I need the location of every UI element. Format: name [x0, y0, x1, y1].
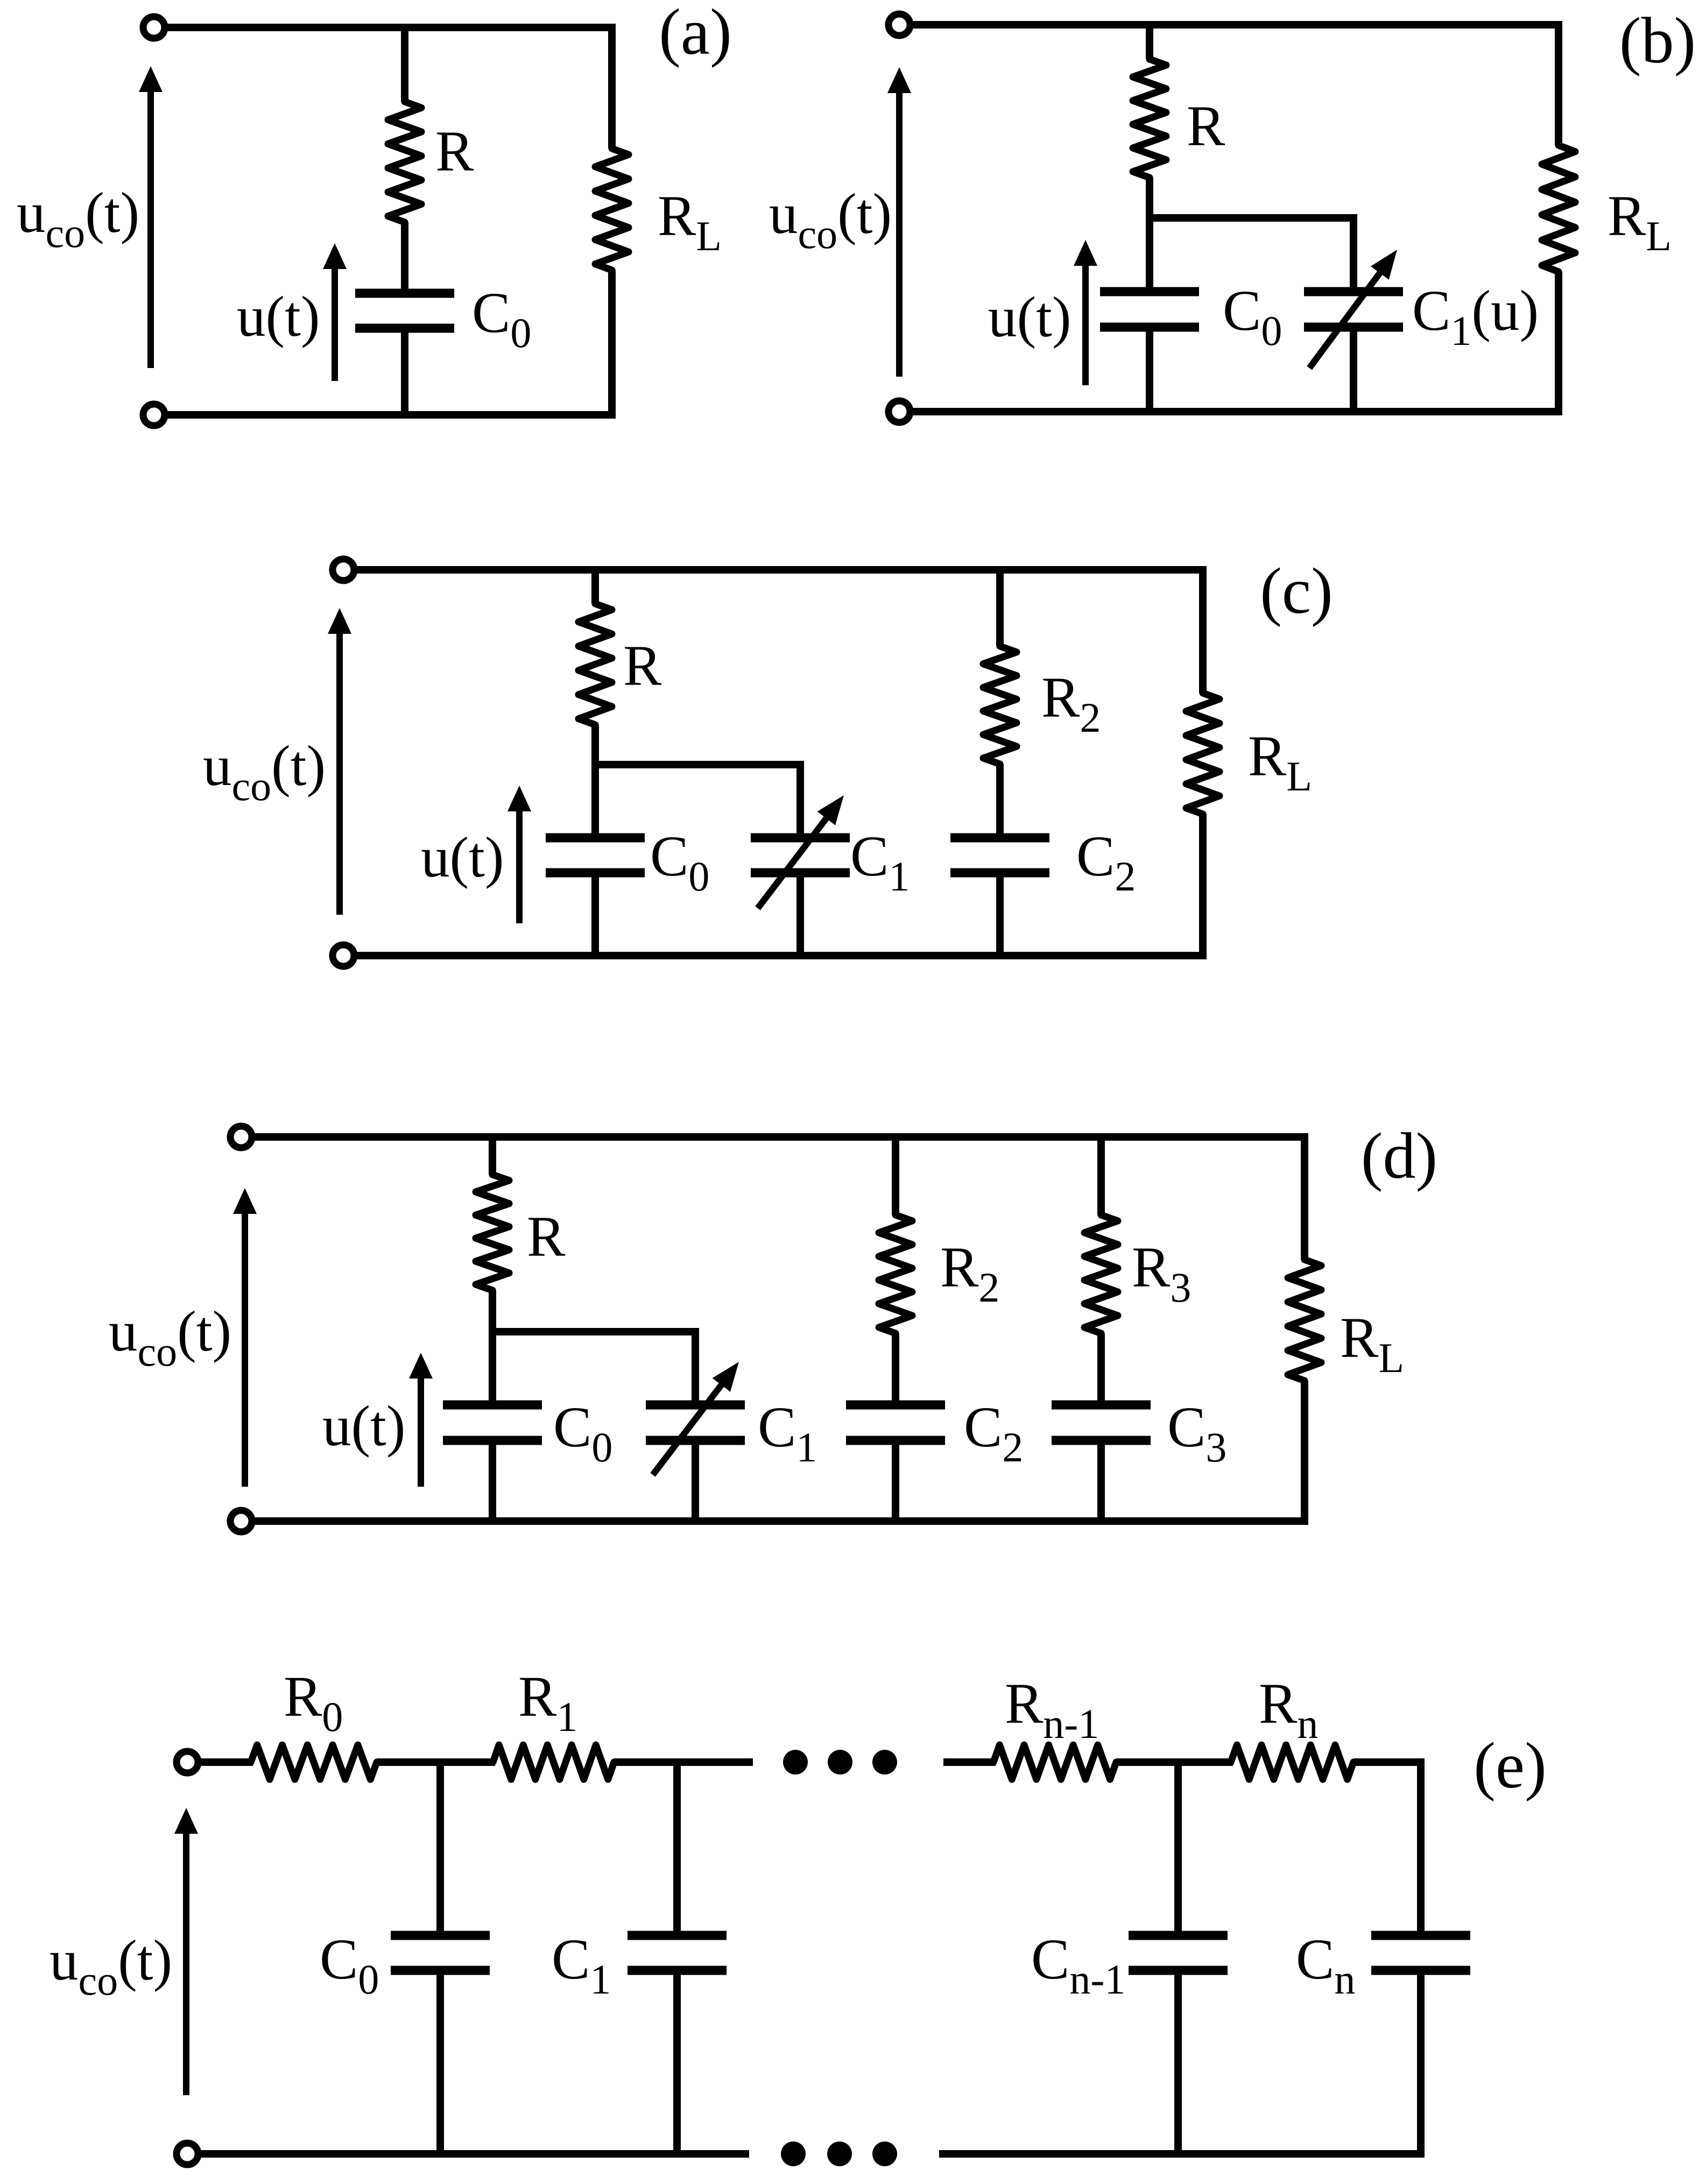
svg-text:(b): (b) [1619, 4, 1696, 77]
arrow u_co(t) e [183, 1830, 189, 2095]
resistor R (d) [476, 1175, 509, 1290]
capacitor C0 (a) [355, 289, 454, 298]
wire e C0 top lead [436, 1762, 444, 1935]
svg-text:u(t): u(t) [322, 1395, 406, 1458]
resistor R (c) [579, 604, 612, 725]
wire a R-C0 lead [401, 222, 408, 293]
wire b RL bottom lead [1555, 272, 1562, 415]
wire d R2-C2 lead [892, 1333, 899, 1405]
capacitor C3 (d) [1052, 1401, 1151, 1410]
wire e top Rn-1-Rn [1116, 1758, 1233, 1766]
arrow u(t) d [418, 1375, 424, 1487]
capacitor C0 (d) [443, 1401, 542, 1410]
capacitor Cn-1 (e) [1129, 1931, 1228, 1940]
wire b C1 bottom lead [1350, 327, 1357, 415]
wire c C1 bottom lead [796, 873, 804, 959]
svg-text:(a): (a) [659, 0, 731, 68]
wire e bottom left [198, 2150, 749, 2158]
wire a C0 bottom lead [401, 328, 408, 419]
wire e C0 bottom lead [436, 1970, 444, 2154]
wire e C1 bottom lead [673, 1970, 681, 2154]
resistor RL (a) [595, 149, 629, 270]
wire c top rail [354, 566, 1203, 574]
svg-text:R: R [1187, 95, 1225, 158]
svg-text:(c): (c) [1260, 555, 1333, 627]
arrow u_co(t) c [336, 631, 343, 915]
resistor R1 (e) [493, 1745, 614, 1779]
svg-text:(d): (d) [1361, 1120, 1437, 1192]
wire d R2 top lead [892, 1133, 899, 1215]
arrow u(t) c [516, 808, 523, 923]
wire a RL top lead [608, 24, 616, 149]
dots e top [783, 1750, 808, 1775]
wire b C0 bottom lead [1146, 327, 1153, 415]
wire c RL top lead [1199, 566, 1207, 693]
resistor RL (b) [1542, 145, 1575, 272]
svg-text:(e): (e) [1474, 1729, 1546, 1802]
wire a bottom rail [165, 411, 612, 419]
arrow u_co(t) a [147, 89, 154, 368]
svg-text:u(t): u(t) [421, 826, 504, 889]
wire c R-node lead [591, 725, 599, 768]
wire b C1 top lead [1350, 214, 1357, 292]
wire d C1 top lead [692, 1328, 699, 1405]
wire a top rail [165, 24, 612, 31]
terminal d-top [230, 1126, 252, 1148]
wire c bottom rail [354, 952, 1203, 959]
wire c R top lead [591, 566, 599, 604]
resistor R (b) [1133, 59, 1166, 178]
wire e top R1-gap [614, 1758, 753, 1766]
terminal b-top [889, 14, 910, 36]
wire d C3 bottom lead [1097, 1440, 1105, 1525]
terminal b-bottom [889, 401, 910, 422]
wire d C1 bottom lead [692, 1440, 699, 1525]
capacitor C0 (b) [1100, 287, 1199, 296]
wire d C0 bottom lead [489, 1440, 496, 1525]
terminal a-top [143, 17, 165, 38]
wire d top rail [252, 1133, 1305, 1141]
wire c C0 top lead [591, 765, 599, 838]
terminal c-top [333, 559, 354, 581]
arrow u_co(t) d [242, 1211, 248, 1487]
terminal c-bottom [333, 945, 354, 966]
resistor R (a) [388, 102, 421, 222]
wire d R3 top lead [1097, 1133, 1105, 1215]
svg-text:u(t): u(t) [988, 286, 1071, 349]
terminal e-left-top [177, 1751, 198, 1773]
wire e top gap-Rn-1 [943, 1758, 996, 1766]
variable capacitor C1(u) (b) [1304, 287, 1403, 296]
wire e top R0-R1 [377, 1758, 495, 1766]
wire e Cn top lead [1417, 1758, 1425, 1935]
wire e bottom right [939, 2150, 1425, 2158]
wire d RL bottom lead [1301, 1381, 1308, 1525]
wire d RL top lead [1301, 1133, 1308, 1260]
resistor Rn-1 (e) [993, 1745, 1116, 1779]
wire a RL bottom lead [608, 270, 616, 419]
wire c C1 top lead [796, 761, 804, 838]
wire b R top lead [1146, 21, 1153, 59]
svg-text:R: R [527, 1205, 566, 1269]
wire d R-node lead [489, 1290, 496, 1335]
dots e bottom [781, 2141, 806, 2166]
wire b RL top lead [1555, 21, 1562, 145]
resistor Rn (e) [1231, 1745, 1353, 1779]
wire b C0 top lead [1146, 218, 1153, 292]
capacitor Cn (e) [1371, 1931, 1470, 1940]
wire e Cn-1 bottom lead [1174, 1970, 1182, 2154]
wire b top rail [910, 21, 1559, 29]
wire d C0 top lead [489, 1332, 496, 1405]
wire c R2-C2 lead [996, 764, 1004, 838]
variable capacitor C1 (d) [646, 1401, 745, 1410]
wire b node horizontal [1150, 214, 1353, 222]
wire b bottom rail [910, 408, 1559, 415]
wire c C0 bottom lead [591, 873, 599, 959]
svg-text:R: R [435, 120, 474, 183]
resistor RL (d) [1288, 1260, 1321, 1381]
wire d bottom rail [252, 1517, 1305, 1525]
wire c R2 top lead [996, 566, 1004, 646]
wire d R3-C3 lead [1097, 1333, 1105, 1405]
arrow u(t) b [1082, 263, 1089, 385]
terminal a-bottom [143, 404, 165, 426]
wire d C2 bottom lead [892, 1440, 899, 1525]
wire c C2 bottom lead [996, 873, 1004, 959]
wire e top Rn-corner [1353, 1758, 1425, 1766]
capacitor C1 (e) [628, 1931, 727, 1940]
capacitor C0 (e) [391, 1931, 490, 1940]
capacitor C2 (d) [846, 1401, 945, 1410]
wire e top lead-in [198, 1758, 253, 1766]
svg-text:R: R [623, 634, 662, 698]
capacitor C2 (c) [950, 833, 1049, 843]
wire e C1 top lead [673, 1762, 681, 1935]
wire b R-node lead [1146, 178, 1153, 222]
wire d node horizontal [492, 1328, 695, 1335]
terminal d-bottom [230, 1510, 252, 1532]
variable capacitor C1 (c) [751, 833, 850, 843]
wire c node horizontal [595, 761, 800, 768]
wire d R top lead [489, 1133, 496, 1175]
svg-text:u(t): u(t) [237, 285, 320, 349]
capacitor C0 (c) [546, 833, 645, 843]
wire c RL bottom lead [1199, 814, 1207, 959]
wire e Cn-1 top lead [1174, 1762, 1182, 1935]
terminal e-left-bottom [177, 2143, 198, 2165]
resistor R2 (c) [983, 646, 1017, 764]
resistor R3 (d) [1084, 1215, 1118, 1333]
resistor R2 (d) [879, 1215, 912, 1333]
arrow u_co(t) b [896, 90, 903, 377]
wire a R top lead [401, 24, 408, 102]
resistor RL (c) [1186, 693, 1219, 814]
arrow u(t) a [332, 266, 338, 381]
wire e Cn bottom lead [1417, 1970, 1425, 2158]
resistor R0 (e) [251, 1745, 377, 1779]
